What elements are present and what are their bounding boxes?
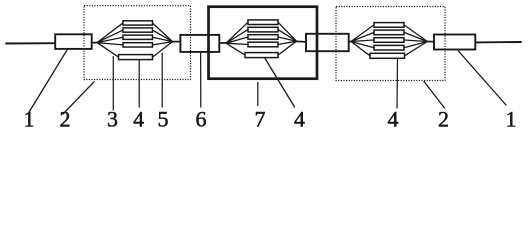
svg-text:2: 2 [438, 107, 449, 132]
svg-text:5: 5 [158, 107, 169, 132]
svg-text:1: 1 [506, 107, 517, 132]
svg-text:1: 1 [24, 107, 35, 132]
svg-text:4: 4 [133, 107, 144, 132]
svg-text:4: 4 [294, 107, 305, 132]
svg-text:3: 3 [107, 107, 118, 132]
svg-text:4: 4 [388, 107, 399, 132]
svg-text:7: 7 [255, 107, 266, 132]
svg-text:6: 6 [196, 107, 207, 132]
svg-text:2: 2 [60, 107, 71, 132]
